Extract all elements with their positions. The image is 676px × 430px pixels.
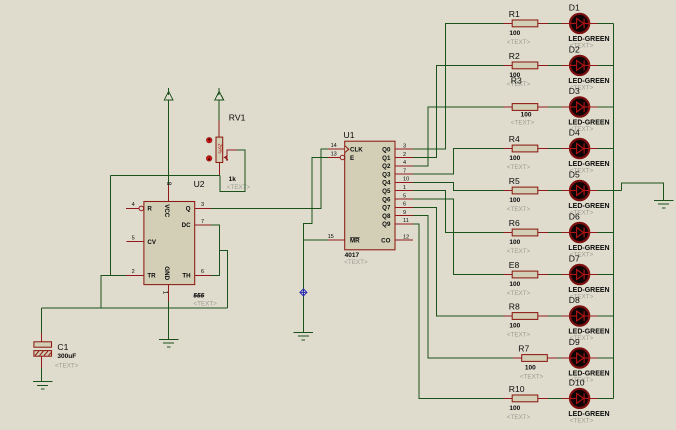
svg-text:E: E <box>350 155 354 162</box>
resistor E8 100 <box>503 271 548 278</box>
svg-text:<TEXT>: <TEXT> <box>344 259 368 266</box>
svg-text:11: 11 <box>403 218 409 224</box>
svg-text:7: 7 <box>201 219 204 225</box>
wire R3 to D3 <box>548 106 561 108</box>
svg-text:7: 7 <box>403 168 406 174</box>
svg-text:2: 2 <box>403 152 406 158</box>
svg-text:555: 555 <box>193 293 204 300</box>
svg-text:D6: D6 <box>569 212 580 222</box>
svg-text:13: 13 <box>331 151 337 157</box>
svg-text:CLK: CLK <box>350 147 363 154</box>
svg-text:100: 100 <box>521 112 532 119</box>
wire D10 to cathode bus <box>597 397 613 399</box>
svg-text:<TEXT>: <TEXT> <box>55 363 79 370</box>
wire U1 Q4 to R5 <box>413 182 503 190</box>
svg-text:Q6: Q6 <box>382 196 391 203</box>
svg-text:26%: 26% <box>216 144 222 155</box>
wire R10 to D10 <box>548 397 561 399</box>
resistor R6 100 <box>503 229 548 236</box>
svg-text:<TEXT>: <TEXT> <box>507 332 531 339</box>
svg-text:TH: TH <box>182 273 191 280</box>
svg-text:<TEXT>: <TEXT> <box>507 206 531 213</box>
potentiometer RV1 <box>216 120 237 175</box>
svg-text:<TEXT>: <TEXT> <box>507 164 531 171</box>
ground right of D5 <box>654 200 673 208</box>
capacitor C1 <box>34 308 52 382</box>
svg-text:<TEXT>: <TEXT> <box>507 248 531 255</box>
power symbol VCC rail (RV1) <box>215 88 224 100</box>
U1 pin 5 Q6 <box>395 198 413 200</box>
svg-text:100: 100 <box>525 365 536 372</box>
RV1 increment button (red dot up) <box>207 138 212 143</box>
LED D10 LED-GREEN <box>562 389 598 408</box>
U2 pin 6 TH <box>195 274 211 276</box>
svg-text:R10: R10 <box>509 384 525 394</box>
U2 pin 5 CV <box>127 241 144 243</box>
svg-text:4: 4 <box>132 202 135 208</box>
resistor R2 100 <box>503 62 548 69</box>
svg-text:100: 100 <box>509 197 520 204</box>
svg-text:Q2: Q2 <box>382 163 391 170</box>
op-amp U2 555 timer body <box>144 202 195 285</box>
U1 pin 11 Q9 <box>395 223 413 225</box>
svg-text:<TEXT>: <TEXT> <box>570 417 594 424</box>
LED D8 LED-GREEN <box>562 306 598 325</box>
U1 pin 14 CLK <box>328 148 345 150</box>
svg-text:8: 8 <box>165 182 172 186</box>
wire D5 to cathode bus <box>597 190 621 192</box>
svg-text:300uF: 300uF <box>57 353 76 360</box>
U1 pin 2 Q1 <box>395 157 413 159</box>
svg-text:R6: R6 <box>509 218 520 228</box>
LED D1 LED-GREEN <box>562 14 598 33</box>
wire R2 to D2 <box>548 64 561 66</box>
U1 pin 13 E (enable, active low) <box>328 157 340 159</box>
svg-text:R8: R8 <box>509 302 520 312</box>
svg-text:Q: Q <box>186 206 191 213</box>
resistor R4 100 <box>503 145 548 152</box>
svg-text:R5: R5 <box>509 176 520 186</box>
svg-text:12: 12 <box>403 235 409 241</box>
resistor R10 100 <box>503 395 548 402</box>
svg-text:D2: D2 <box>569 44 580 54</box>
svg-text:4: 4 <box>403 160 406 166</box>
resistor R7 100 <box>513 355 558 362</box>
svg-text:100: 100 <box>509 239 520 246</box>
wire U1 Q9 to R10 <box>413 224 503 399</box>
svg-text:D7: D7 <box>569 254 580 264</box>
wire R4 to D4 <box>548 148 561 150</box>
svg-text:D9: D9 <box>569 337 580 347</box>
svg-text:R1: R1 <box>509 9 520 19</box>
wire R1 to D1 <box>548 22 561 24</box>
wire U1 Q8 to R7 <box>413 216 513 358</box>
LED D9 LED-GREEN <box>562 348 598 367</box>
svg-text:R4: R4 <box>509 134 520 144</box>
svg-text:CV: CV <box>147 239 156 246</box>
wire U1 Q0 to R1 <box>413 23 503 149</box>
svg-text:100: 100 <box>509 155 520 162</box>
wire D8 to cathode bus <box>597 315 613 317</box>
wire DC/TH branch down to C1 node <box>219 250 227 307</box>
wire LED cathode bus vertical <box>612 23 614 398</box>
U1 pin 7 Q3 <box>395 173 413 175</box>
wire R7 to D9 <box>558 357 562 359</box>
wire U1 Q1 to R2 <box>413 65 503 157</box>
ground below U2 <box>159 339 178 347</box>
svg-text:<TEXT>: <TEXT> <box>227 184 251 191</box>
U2 pin 1 GND bottom <box>168 285 170 302</box>
wire power rail down to U2 VCC <box>168 100 170 184</box>
svg-text:Q0: Q0 <box>382 147 391 154</box>
wire U1 Q6 to E8 <box>413 199 503 275</box>
wire bus to right ground <box>622 183 664 200</box>
wire U1 E to ground rail <box>303 158 327 333</box>
svg-text:RV1: RV1 <box>229 112 246 122</box>
wire E8 to D7 <box>548 274 561 276</box>
svg-text:5: 5 <box>403 193 406 199</box>
U1 pin 15 MR <box>328 239 345 241</box>
svg-text:D5: D5 <box>569 170 580 180</box>
svg-text:2: 2 <box>132 269 135 275</box>
svg-text:1: 1 <box>403 185 406 191</box>
svg-text:Q1: Q1 <box>382 155 391 162</box>
wire D6 to cathode bus <box>597 232 613 234</box>
LED D4 LED-GREEN <box>562 139 598 158</box>
wire TR net: TR to C1 node <box>101 275 126 307</box>
LED D3 LED-GREEN <box>562 97 598 116</box>
svg-text:MR: MR <box>350 237 360 244</box>
svg-text:Q3: Q3 <box>382 171 391 178</box>
svg-text:15: 15 <box>328 234 334 240</box>
wire R6 to D6 <box>548 232 561 234</box>
svg-text:D3: D3 <box>569 86 580 96</box>
resistor R5 100 <box>503 187 548 194</box>
power symbol VCC rail (left) <box>164 88 173 100</box>
wire U1 Q3 to R4 <box>413 149 503 175</box>
U1 pin 3 Q0 <box>395 148 413 150</box>
wire R5 to D5 <box>548 190 561 192</box>
svg-text:VCC: VCC <box>163 204 170 218</box>
IC U1 4017 body <box>345 141 395 250</box>
RV1 decrement button (red dot down) <box>206 156 211 161</box>
svg-text:D4: D4 <box>569 128 580 138</box>
svg-text:TR: TR <box>147 273 156 280</box>
svg-text:R3: R3 <box>511 76 522 86</box>
wire U2 Q to U1 CLK <box>211 149 328 208</box>
wire RV1 bottom to U2 trigger rail <box>110 174 220 176</box>
svg-text:<TEXT>: <TEXT> <box>193 301 217 308</box>
U1 pin 9 Q8 <box>395 215 413 217</box>
svg-text:1k: 1k <box>229 176 237 183</box>
wire U1 Q2 to R3 <box>413 107 503 166</box>
resistor R1 100 <box>503 20 548 27</box>
svg-text:3: 3 <box>403 144 406 150</box>
wire C1 top node horizontal <box>42 307 228 309</box>
svg-text:Q8: Q8 <box>382 213 391 220</box>
svg-text:6: 6 <box>403 202 406 208</box>
wire RV1 wiper loop to bottom terminal <box>220 150 245 192</box>
wire U1 Q5 to R6 <box>413 191 503 233</box>
U1 pin 4 Q2 <box>395 165 413 167</box>
svg-text:6: 6 <box>201 269 204 275</box>
wire U1 MR to ground rail <box>303 239 327 241</box>
svg-text:<TEXT>: <TEXT> <box>507 290 531 297</box>
svg-text:D1: D1 <box>569 2 580 12</box>
U2 pin 8 VCC top <box>168 185 170 202</box>
svg-text:U2: U2 <box>194 179 205 189</box>
U1 pin 6 Q7 <box>395 206 413 208</box>
svg-text:<TEXT>: <TEXT> <box>511 120 535 127</box>
wire D7 to cathode bus <box>597 274 613 276</box>
svg-text:U1: U1 <box>344 130 355 140</box>
LED D7 LED-GREEN <box>562 265 598 284</box>
svg-text:Q9: Q9 <box>382 221 391 228</box>
svg-text:R: R <box>147 206 152 213</box>
wire down to TR node <box>109 175 111 275</box>
U2 pin 3 Q <box>195 207 211 209</box>
svg-text:D10: D10 <box>569 377 585 387</box>
svg-text:<TEXT>: <TEXT> <box>507 39 531 46</box>
wire D4 to cathode bus <box>597 148 613 150</box>
svg-text:9: 9 <box>403 210 406 216</box>
wire DC to TH loop <box>211 225 219 276</box>
svg-text:3: 3 <box>201 202 204 208</box>
svg-text:4017: 4017 <box>345 252 360 259</box>
RV1 wiper arrow and pin <box>223 155 227 160</box>
wire U1 Q7 to R8 <box>413 207 503 316</box>
svg-text:100: 100 <box>509 281 520 288</box>
U2 pin 7 DC <box>195 224 211 226</box>
resistor R3 100 <box>503 104 548 111</box>
svg-text:5: 5 <box>132 235 135 241</box>
wire D1 to cathode bus <box>597 22 613 24</box>
svg-text:14: 14 <box>331 143 337 149</box>
svg-text:100: 100 <box>509 405 520 412</box>
LED D5 LED-GREEN <box>562 181 598 200</box>
svg-text:D8: D8 <box>569 295 580 305</box>
wire D2 to cathode bus <box>597 64 613 66</box>
svg-text:Q4: Q4 <box>382 180 391 187</box>
wire R8 to D8 <box>548 315 561 317</box>
ground below U1 <box>294 332 313 340</box>
wire U2 pin1 to ground <box>168 302 170 340</box>
svg-text:<TEXT>: <TEXT> <box>507 414 531 421</box>
svg-text:DC: DC <box>182 222 191 229</box>
wire power to RV1 top <box>218 100 220 120</box>
svg-text:CO: CO <box>381 237 390 244</box>
svg-text:GND: GND <box>163 266 170 280</box>
U1 pin 1 Q5 <box>395 190 413 192</box>
svg-text:E8: E8 <box>509 260 520 270</box>
LED D2 LED-GREEN <box>562 56 598 75</box>
svg-text:1: 1 <box>161 291 168 295</box>
svg-text:100: 100 <box>509 323 520 330</box>
svg-text:Q5: Q5 <box>382 188 391 195</box>
svg-text:R2: R2 <box>509 51 520 61</box>
wire D9 to cathode bus <box>597 357 613 359</box>
svg-text:C1: C1 <box>57 342 68 352</box>
U1 pin 10 Q4 <box>395 181 413 183</box>
origin marker (blue) <box>300 289 307 296</box>
U2 pin 4 R (reset) with bubble <box>126 207 139 209</box>
svg-text:R7: R7 <box>518 344 529 354</box>
LED D6 LED-GREEN <box>562 223 598 242</box>
svg-text:10: 10 <box>403 177 409 183</box>
U1 pin 12 CO (unconnected) <box>395 239 413 241</box>
ground below C1 <box>33 382 52 390</box>
svg-text:100: 100 <box>509 30 520 37</box>
U2 pin 2 TR <box>126 274 144 276</box>
svg-text:Q7: Q7 <box>382 205 391 212</box>
svg-text:<TEXT>: <TEXT> <box>520 374 544 381</box>
wire D3 to cathode bus <box>597 106 613 108</box>
resistor R8 100 <box>503 313 548 320</box>
